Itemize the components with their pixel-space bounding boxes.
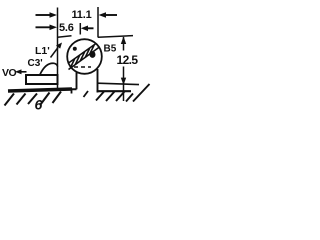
svg-text:5.6: 5.6: [59, 22, 74, 34]
svg-text:11.1: 11.1: [72, 9, 92, 21]
svg-text:VO: VO: [2, 67, 17, 79]
svg-text:12.5: 12.5: [117, 53, 139, 67]
svg-text:C3': C3': [28, 58, 43, 69]
svg-text:L1': L1': [35, 45, 50, 57]
svg-text:6: 6: [35, 97, 43, 113]
svg-text:B5: B5: [104, 44, 117, 55]
